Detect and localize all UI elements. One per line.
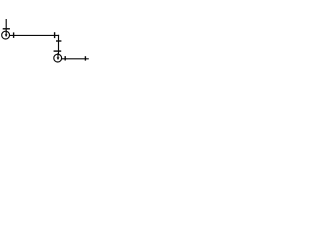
terminal tick (I2 right lead) (64, 56, 66, 60)
terminal tick (before top-right corner) (54, 32, 56, 38)
current source I1 (2, 19, 10, 39)
current source I2 (54, 53, 62, 62)
wire (vertical drop at right of top run) (58, 35, 60, 55)
terminal tick (I1 right lead) (13, 32, 15, 38)
terminal tick (right end of bottom run) (84, 56, 86, 60)
wire (bottom horizontal run to right edge) (62, 58, 89, 60)
wire (top horizontal run) (10, 34, 60, 36)
terminal tick (upper on vertical wire) (56, 40, 61, 42)
terminal tick (I1 top lead) (3, 28, 10, 30)
terminal tick (I2 top lead) (54, 50, 62, 52)
